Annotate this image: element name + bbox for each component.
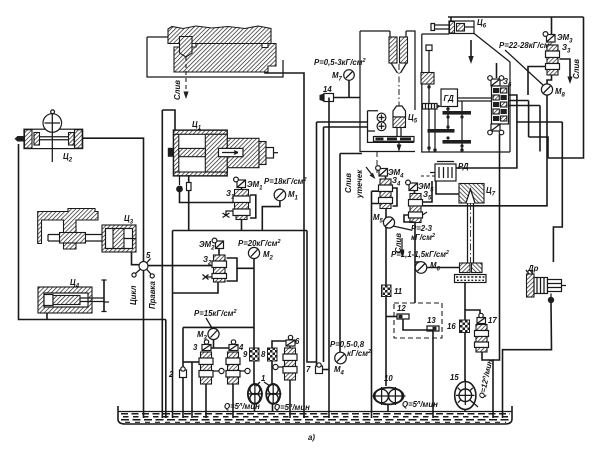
solenoid З6 bottom xyxy=(488,124,504,360)
cylinder Ц3 frame block xyxy=(38,209,98,250)
filter 11 xyxy=(382,285,392,297)
valve З5 xyxy=(409,181,433,223)
cylinder Ц3 piston rod xyxy=(48,233,113,244)
node 5 selector xyxy=(132,259,154,279)
svg-text:кГ/см2: кГ/см2 xyxy=(347,349,371,358)
wire РД to Ц7 xyxy=(436,181,459,194)
valve З6 xyxy=(492,86,509,124)
pump valve 3 xyxy=(199,340,224,384)
wire Ц4 to frame xyxy=(46,313,48,320)
svg-text:8: 8 xyxy=(261,350,266,359)
wire Ц2 to node 5 xyxy=(83,138,144,261)
shaft with stop xyxy=(426,45,432,152)
wire З5 bottom bypass xyxy=(404,215,415,222)
pump valve 6 xyxy=(273,335,297,380)
wire З4 bypass xyxy=(393,188,398,206)
wire valve3 left port xyxy=(183,361,199,363)
item 7 fitting xyxy=(316,363,330,374)
wires З6 right ladder xyxy=(456,95,562,262)
wire item14 line to tank xyxy=(328,101,330,418)
item 20 fitting xyxy=(180,367,187,378)
svg-text:а): а) xyxy=(308,433,315,442)
wire pump15 to filter 16 xyxy=(465,310,480,383)
svg-text:15: 15 xyxy=(450,373,459,382)
svg-text:Q=5л/мин: Q=5л/мин xyxy=(224,402,260,411)
svg-text:РД: РД xyxy=(458,162,469,171)
valve 17 xyxy=(475,313,489,352)
machine outline xyxy=(147,37,283,77)
pump 1b xyxy=(266,383,282,405)
valve З4 xyxy=(379,176,393,209)
svg-text:утечек: утечек xyxy=(355,169,364,199)
svg-text:Р=20кГ/см2: Р=20кГ/см2 xyxy=(238,239,281,248)
gauge М6 xyxy=(415,262,427,274)
svg-text:3: 3 xyxy=(193,343,198,352)
pointer to М8 xyxy=(505,50,543,85)
wire specimen to filter16 xyxy=(464,282,466,310)
label Слив mid with arrow xyxy=(394,233,404,257)
svg-text:Р=1,1-1,5кГ/см2: Р=1,1-1,5кГ/см2 xyxy=(391,250,449,259)
cylinder Ц6 xyxy=(431,21,474,34)
Ц5 inner box xyxy=(368,111,415,143)
wire Др drain to tank xyxy=(503,303,552,418)
hatched block in box xyxy=(421,73,434,85)
gear bar middle xyxy=(428,125,455,132)
wire drain to tank mid xyxy=(191,362,193,418)
svg-text:ГД: ГД xyxy=(444,94,455,103)
svg-text:2: 2 xyxy=(168,370,174,379)
ГД box xyxy=(441,89,458,107)
top border wire xyxy=(448,17,584,158)
arrow mark on З5 xyxy=(423,212,428,215)
label P=2-3 кГ/см2 xyxy=(411,224,435,242)
svg-text:17: 17 xyxy=(488,316,497,325)
wire valve3 to tank xyxy=(205,384,207,418)
svg-text:Р=18кГ/см2: Р=18кГ/см2 xyxy=(264,177,307,186)
wire pump15 suction xyxy=(464,405,466,411)
filter 9 xyxy=(250,348,260,361)
svg-text:Слив: Слив xyxy=(173,80,182,100)
svg-text:5: 5 xyxy=(146,251,151,260)
striped mini valve xyxy=(423,104,442,110)
svg-text:Др: Др xyxy=(527,264,539,273)
svg-text:Слив: Слив xyxy=(344,173,353,193)
wire pump1a suction xyxy=(254,402,256,411)
gear train shafts xyxy=(433,98,492,152)
filter 8 xyxy=(268,348,278,361)
svg-text:7: 7 xyxy=(306,365,311,374)
gauge М1 xyxy=(274,189,286,201)
РД pressure relay xyxy=(430,162,460,182)
wire З2 drain xyxy=(173,282,219,293)
svg-text:Слив: Слив xyxy=(572,59,581,79)
svg-text:Р=2-3: Р=2-3 xyxy=(411,224,433,233)
wire Ц5 feed upper xyxy=(317,122,369,365)
gear bar bottom xyxy=(443,136,472,147)
wire valve6 to tank xyxy=(289,380,291,418)
pump 10 xyxy=(373,387,406,405)
РД pilot dashed line xyxy=(421,175,435,177)
wire Ц3 to node5 xyxy=(132,252,140,265)
cylinder Ц7 xyxy=(459,184,484,204)
svg-text:Правка: Правка xyxy=(148,281,157,309)
fitting under Ц1 left xyxy=(176,175,233,203)
gauge М7 xyxy=(344,70,355,98)
machine drain dashed with Слив xyxy=(173,57,189,100)
filter 16 xyxy=(460,320,470,333)
wire frame right drop to tank xyxy=(165,320,167,419)
wire filter8 top xyxy=(272,341,290,348)
wire З4 bottom to М5 and filter 11 xyxy=(385,208,387,386)
item 13 valve xyxy=(427,326,439,331)
wire З1 drain vertical xyxy=(307,231,317,363)
label P=0,5-0,8 кГ/см2 xyxy=(330,340,371,358)
machine fixture lower block xyxy=(174,44,276,73)
solenoid ЭМ4 xyxy=(376,166,388,176)
wire node5 down to tank xyxy=(143,271,145,419)
cylinder Ц4 xyxy=(38,280,109,313)
Ц5 bottom bar xyxy=(374,137,415,142)
svg-text:Р=0,5-0,8: Р=0,5-0,8 xyxy=(330,340,365,349)
pump valve 4 xyxy=(226,340,250,384)
svg-text:Q=5л/мин: Q=5л/мин xyxy=(402,400,438,409)
svg-text:Р=0,5-3кГ/см2: Р=0,5-3кГ/см2 xyxy=(314,58,366,67)
wire valves 3-4 supply with М3 xyxy=(206,339,233,348)
cylinder Ц2 xyxy=(15,110,83,162)
tank (oil reservoir) xyxy=(118,406,512,424)
big box outline xyxy=(422,33,510,152)
valve З3 xyxy=(528,45,573,95)
svg-text:9: 9 xyxy=(243,350,248,359)
wire valve4 to tank xyxy=(232,384,234,418)
machine clamp tooth xyxy=(180,37,193,58)
label 1 with pointers xyxy=(256,374,270,386)
wire Ц1 return to tank xyxy=(162,110,175,418)
valve З2 xyxy=(203,249,255,283)
svg-text:12: 12 xyxy=(397,304,406,313)
Ц5 hatched column xyxy=(389,31,408,73)
svg-text:13: 13 xyxy=(427,316,436,325)
wire pump10 suction xyxy=(387,404,389,411)
solenoid ЭМ3 xyxy=(543,17,555,42)
svg-text:14: 14 xyxy=(323,85,332,94)
wire filter 9 top feed xyxy=(183,326,254,328)
svg-text:кГ/см2: кГ/см2 xyxy=(411,233,435,242)
item 14 fitting xyxy=(320,94,361,102)
solenoid ЭМ2 xyxy=(212,238,223,248)
wire machine drain to tank xyxy=(265,63,304,418)
cylinder Ц1 xyxy=(168,130,278,176)
Ц7 rod xyxy=(468,203,474,263)
wire pump1b suction xyxy=(272,402,274,411)
gauge М8 xyxy=(541,84,552,95)
dashed box xyxy=(394,303,442,338)
wire З5 to М6 and dashed box xyxy=(415,222,421,303)
item 12 valve xyxy=(386,314,433,332)
Ц5 needle dash line xyxy=(398,64,400,106)
wire filter8 to pump xyxy=(271,361,273,385)
gear bar top xyxy=(443,111,472,119)
wire З4 drain to tank xyxy=(372,191,379,418)
gauge М5 xyxy=(383,217,411,230)
svg-text:6: 6 xyxy=(295,337,300,346)
label Слив утечек xyxy=(344,167,376,199)
valve З1 xyxy=(223,188,280,231)
svg-text:1: 1 xyxy=(261,374,265,383)
leak drain dash to З4 xyxy=(376,152,378,176)
pointer to М3 xyxy=(206,318,212,328)
wire item13 to tank xyxy=(432,332,434,418)
Ц5 piston xyxy=(393,106,406,137)
wire left frame xyxy=(19,144,166,320)
svg-text:Цикл: Цикл xyxy=(129,285,138,305)
Ц5 outer box xyxy=(360,31,415,152)
fitting under Ц1 right xyxy=(187,175,192,231)
wire Ц7 left port xyxy=(427,267,460,269)
gauge М4 xyxy=(335,352,347,364)
wire М8 to З5 circuit xyxy=(423,95,547,206)
Ц5 arrow down xyxy=(397,145,402,153)
machine fixture top bar xyxy=(168,26,271,44)
Др throttle xyxy=(526,270,566,303)
wire М2 line down to filter 9 xyxy=(253,268,255,385)
svg-text:Р=15кГ/см2: Р=15кГ/см2 xyxy=(194,309,237,318)
wire Ц5 feed lower xyxy=(324,127,369,362)
gauge М3 xyxy=(208,328,219,339)
wire М4 supply from Ц5 box xyxy=(340,154,362,353)
wire valve17 drain to tank xyxy=(482,352,493,418)
specimen bar xyxy=(455,275,487,283)
wire item 20 drop xyxy=(182,327,184,418)
wire node5 to valve З2 xyxy=(148,265,212,267)
svg-text:16: 16 xyxy=(447,322,456,331)
Ц5 gear circles xyxy=(377,113,386,131)
wire Ц1 drain line xyxy=(173,231,308,419)
arrow under Ц6 xyxy=(468,40,473,64)
Ц7 lower block xyxy=(460,263,483,273)
solenoid З6 top xyxy=(488,63,504,86)
pump 15 xyxy=(455,379,478,410)
pump 1a xyxy=(247,383,263,405)
solenoid ЭМ1 xyxy=(234,177,246,187)
svg-text:Р=22-28кГ/см2: Р=22-28кГ/см2 xyxy=(499,41,553,50)
svg-text:11: 11 xyxy=(394,287,402,296)
svg-text:Q=5л/мин: Q=5л/мин xyxy=(274,403,310,412)
cylinder Ц3 xyxy=(102,225,136,252)
svg-text:10: 10 xyxy=(384,374,393,383)
solenoid ЭМ5 xyxy=(406,180,418,190)
gauge М2 xyxy=(248,247,259,268)
